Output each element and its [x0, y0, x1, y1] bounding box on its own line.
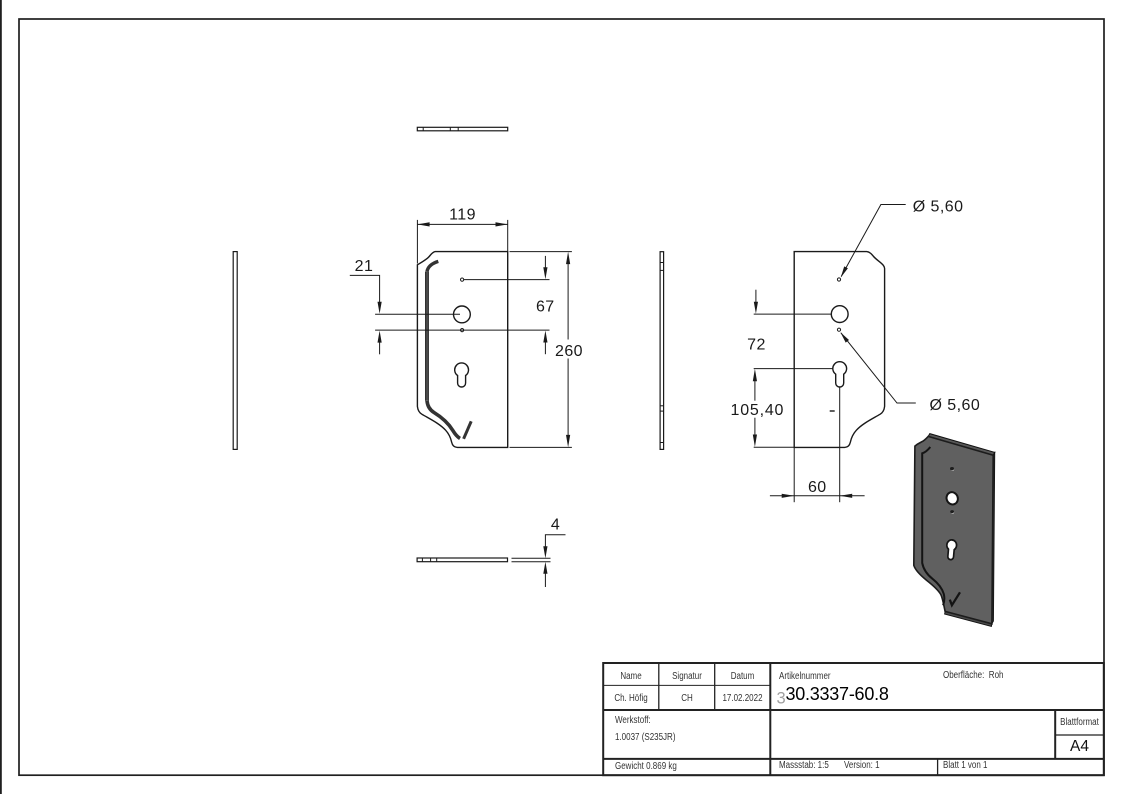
page edge line — [0, 0, 2, 794]
dim 67 lower shaft — [544, 341, 546, 354]
dim 260 shaft upper — [567, 262, 569, 340]
cell text Ch. Hoefig — [609, 693, 654, 704]
top strip tick 1 — [422, 127, 424, 131]
top strip tick 2 — [449, 127, 451, 131]
dim 60 arrows — [782, 494, 853, 498]
cell text Werkstoff — [615, 715, 651, 726]
horizontal divider blattformat — [1055, 734, 1104, 736]
cell text date — [721, 693, 765, 704]
dim 21 lower shaft — [379, 341, 381, 354]
dim 4 leader elbow — [545, 535, 565, 548]
cell text Oberflaeche — [943, 670, 1003, 681]
back plate outline — [794, 252, 884, 448]
dim 21 leader bar — [350, 275, 380, 303]
dim 72 arrow — [754, 302, 758, 314]
bottom strip outline — [417, 558, 507, 562]
dim 21/67 ref line lower — [375, 329, 549, 331]
front large hole — [454, 306, 471, 323]
front edge band bottom curve (hatched) — [427, 401, 460, 439]
dim 119 extension lines — [416, 220, 418, 264]
dim 21 ref line upper — [375, 313, 460, 315]
front edge band top arc (hatched) — [427, 261, 438, 271]
dim 60 left extension — [793, 447, 795, 502]
back center dash — [830, 410, 835, 412]
horizontal divider name row — [603, 684, 770, 686]
vertical divider Name/Signatur — [658, 663, 660, 710]
cell text Blattformat — [1060, 717, 1099, 728]
dim 21 arrows — [378, 302, 382, 343]
front edge band checkmark — [464, 421, 472, 439]
dim 119 arrows — [417, 222, 507, 226]
middle strip outline — [660, 252, 664, 450]
top strip outline — [417, 127, 507, 131]
cell text Massstab — [779, 760, 829, 771]
dim 4 extension lines — [512, 557, 551, 559]
dim 60 line — [770, 495, 865, 497]
dim 260 bottom extension — [510, 446, 572, 448]
cell text Blatt — [943, 760, 987, 771]
back small hole top — [837, 278, 840, 281]
vertical divider blattformat — [1054, 710, 1056, 759]
3d small hole bottom — [951, 512, 954, 514]
3d bent edge inner line — [922, 447, 944, 605]
dim 72 ref line — [754, 313, 832, 315]
cell text A4 — [1055, 738, 1104, 756]
cell text material — [615, 732, 675, 743]
dim 105,40 shaft upper — [754, 380, 756, 401]
dim 105,40 ref line top — [754, 368, 833, 370]
dim 119 line — [417, 223, 507, 225]
bottom strip ticks — [421, 558, 423, 562]
dim 260 shaft lower — [567, 359, 569, 438]
dim 72 upper shaft — [755, 290, 757, 303]
front plate outline — [417, 252, 507, 448]
dim 260 top extension — [510, 251, 572, 253]
dim 105,40 arrows — [753, 369, 757, 447]
middle strip ticks — [660, 262, 664, 264]
front small hole bottom — [461, 329, 464, 332]
dim 60 keyhole centerline — [839, 388, 841, 503]
back keyhole — [833, 362, 847, 387]
3d right face band — [992, 452, 995, 623]
leader diameter top — [841, 205, 906, 277]
front edge band vertical — [425, 272, 429, 401]
top strip tick 3 — [457, 127, 459, 131]
dim 4 lower shaft — [544, 573, 546, 588]
horizontal divider row2 — [603, 709, 1104, 711]
title block outer border — [603, 663, 1104, 775]
vertical divider version/blatt — [937, 759, 939, 775]
dim 67 ref line top — [464, 279, 550, 281]
cell text Version — [844, 760, 880, 771]
back small hole bottom — [837, 328, 840, 331]
3d top face band — [928, 434, 995, 456]
front small hole top — [461, 278, 464, 281]
dim 67 upper shaft — [544, 256, 546, 269]
3d keyhole — [946, 539, 957, 560]
cell text Signatur — [665, 671, 710, 682]
cell text Gewicht — [615, 761, 677, 772]
cell text Name — [609, 671, 654, 682]
vertical divider Signatur/Datum — [714, 663, 716, 710]
3d large hole — [945, 491, 960, 506]
3d front face — [914, 436, 993, 623]
leader diameter bottom — [841, 333, 916, 403]
horizontal divider bottom row — [603, 758, 1104, 760]
3d bottom face band — [945, 611, 992, 626]
front keyhole — [455, 363, 469, 387]
left strip outline — [233, 252, 237, 450]
dim 105,40 ref line bottom — [754, 446, 795, 448]
dim 105,40 shaft lower — [754, 418, 756, 436]
dim 4 arrows — [543, 546, 547, 574]
3d checkmark — [950, 592, 960, 605]
vertical divider main left/right — [769, 663, 771, 775]
dim 67 arrows — [543, 267, 547, 342]
back large hole — [831, 306, 848, 323]
cell text CH — [665, 693, 710, 704]
dim 260 arrows — [566, 252, 570, 448]
front edge band vertical dark sides — [425, 272, 427, 401]
3d small hole top — [951, 469, 954, 471]
cell text Artikelnummer — [779, 671, 831, 682]
cell text Datum — [721, 671, 765, 682]
